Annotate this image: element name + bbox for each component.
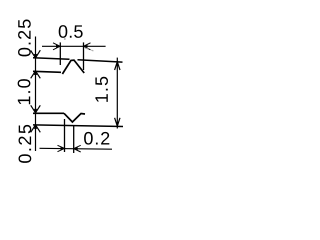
gray artifact speck 2 (91, 49, 93, 52)
dimension line 0.5 (top horizontal) (42, 45, 106, 47)
up arrow of 1.5 (115, 62, 120, 70)
apex-level extension line (left segment) (33, 58, 70, 60)
top surface line (left) (33, 71, 61, 72)
tip of up arrow (0.25 bottom) (34, 125, 37, 129)
0.2 dimension line with underline extension to the right (40, 147, 113, 150)
extension line E1 (x=60) (59, 42, 61, 65)
1.5 vertical dimension line at right (x=117.3) (116, 58, 118, 129)
extension line E2 (x=83.5) (83, 42, 85, 70)
triangular notch in bottom surface (64, 113, 85, 122)
tip of right-pointing arrow (0.5 left) (56, 45, 60, 48)
label 0.25 (top left, rotated) (18, 20, 31, 57)
arrowhead left-pointing at x=73.7 (74, 145, 81, 152)
tip of down arrow (1.0 bottom) (34, 109, 37, 113)
gray artifact diagonal near 0.5 right arrow (85, 47, 88, 50)
tip of up arrow (1.5 top) (116, 62, 119, 66)
tip of left-pointing arrow (0.5 right) (84, 45, 88, 48)
tip of right-pointing arrow (0.2 left) (61, 147, 65, 150)
apex-level line continuing right to 1.5 dimension (78, 60, 123, 62)
gray speck near 0.5 text (64, 38, 66, 40)
tip of down arrow (1.5 bottom) (116, 122, 119, 126)
0.2 extension line left (x=64.5) (64, 119, 66, 152)
arrowhead right-pointing at left ext line (53, 43, 60, 50)
triangular bump on top surface (62, 60, 84, 74)
label 1.5 (right, rotated) (95, 77, 108, 102)
label 0.2 (bottom) (84, 132, 109, 145)
tip of up arrow (0.25 top lower) (34, 71, 37, 75)
up arrow at y=71 (0.25 top / 1.0) (31, 71, 41, 78)
filled arrow tips (34, 45, 119, 150)
arrowhead left-pointing at right ext line (84, 43, 91, 50)
label 1.0 (left, rotated) (18, 79, 31, 104)
down arrow at y=58 (0.25 top) (31, 50, 41, 58)
label 0.5 (top) (59, 25, 83, 38)
down arrow of 1.5 (115, 118, 120, 126)
up arrow at y=124.9 (0.25 bottom) (31, 125, 41, 132)
bottom reference line (vertex level, runs to 1.5 dimension) (33, 125, 123, 127)
arrowhead right-pointing at x=64.5 (58, 145, 65, 151)
main vertical dimension line at left (x=35.5) (35, 37, 37, 152)
0.2 extension line right (x=73.7) (73, 126, 75, 153)
tip of down arrow (0.25 top) (34, 54, 37, 58)
down arrow at y=113 (1.0 / 0.25 bottom) (31, 105, 41, 113)
label 0.25 (bottom left, rotated) (19, 125, 32, 163)
tip of left-pointing arrow (0.2 right) (74, 147, 78, 150)
bottom surface line (left) (33, 112, 64, 114)
